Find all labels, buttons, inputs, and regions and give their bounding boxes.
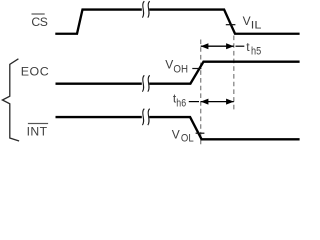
svg-text:h5: h5 [251,46,261,58]
label INT (overlined) [27,123,48,139]
label t_h6 [173,91,186,109]
tick V_IL on CS falling edge [226,24,236,26]
dashed guide line right (x=233.8) [233,36,235,113]
svg-text:CS: CS [31,15,47,29]
wire INT waveform [56,117,300,139]
wire EOC waveform [56,62,300,84]
svg-text:OH: OH [173,64,188,76]
label V_OH [165,57,188,75]
label V_OL [172,127,194,144]
svg-text:V: V [172,127,180,141]
svg-text:V: V [243,14,251,28]
dimension arrow t_h6 [189,99,234,105]
break symbol on INT line [142,109,149,125]
svg-text:V: V [165,57,173,71]
dashed guide line left (x=200.7) [200,40,202,145]
label V_IL [243,14,262,31]
label t_h5 [246,40,261,58]
break symbol on CS line [142,1,149,17]
svg-text:h6: h6 [176,98,186,110]
group brace for EOC and INT [2,59,19,141]
tick V_OH on EOC rising edge [192,68,201,70]
svg-text:OL: OL [181,133,194,145]
tick V_OL on INT falling edge [196,132,205,134]
label CS (overlined) [31,13,47,29]
svg-text:IL: IL [251,19,262,31]
svg-text:t: t [246,40,250,54]
label EOC [21,64,49,78]
svg-text:EOC: EOC [21,64,49,78]
dimension arrow t_h5 [201,43,245,49]
svg-text:INT: INT [27,125,48,139]
wire CS waveform [55,10,299,34]
break symbol on EOC line [142,75,149,91]
